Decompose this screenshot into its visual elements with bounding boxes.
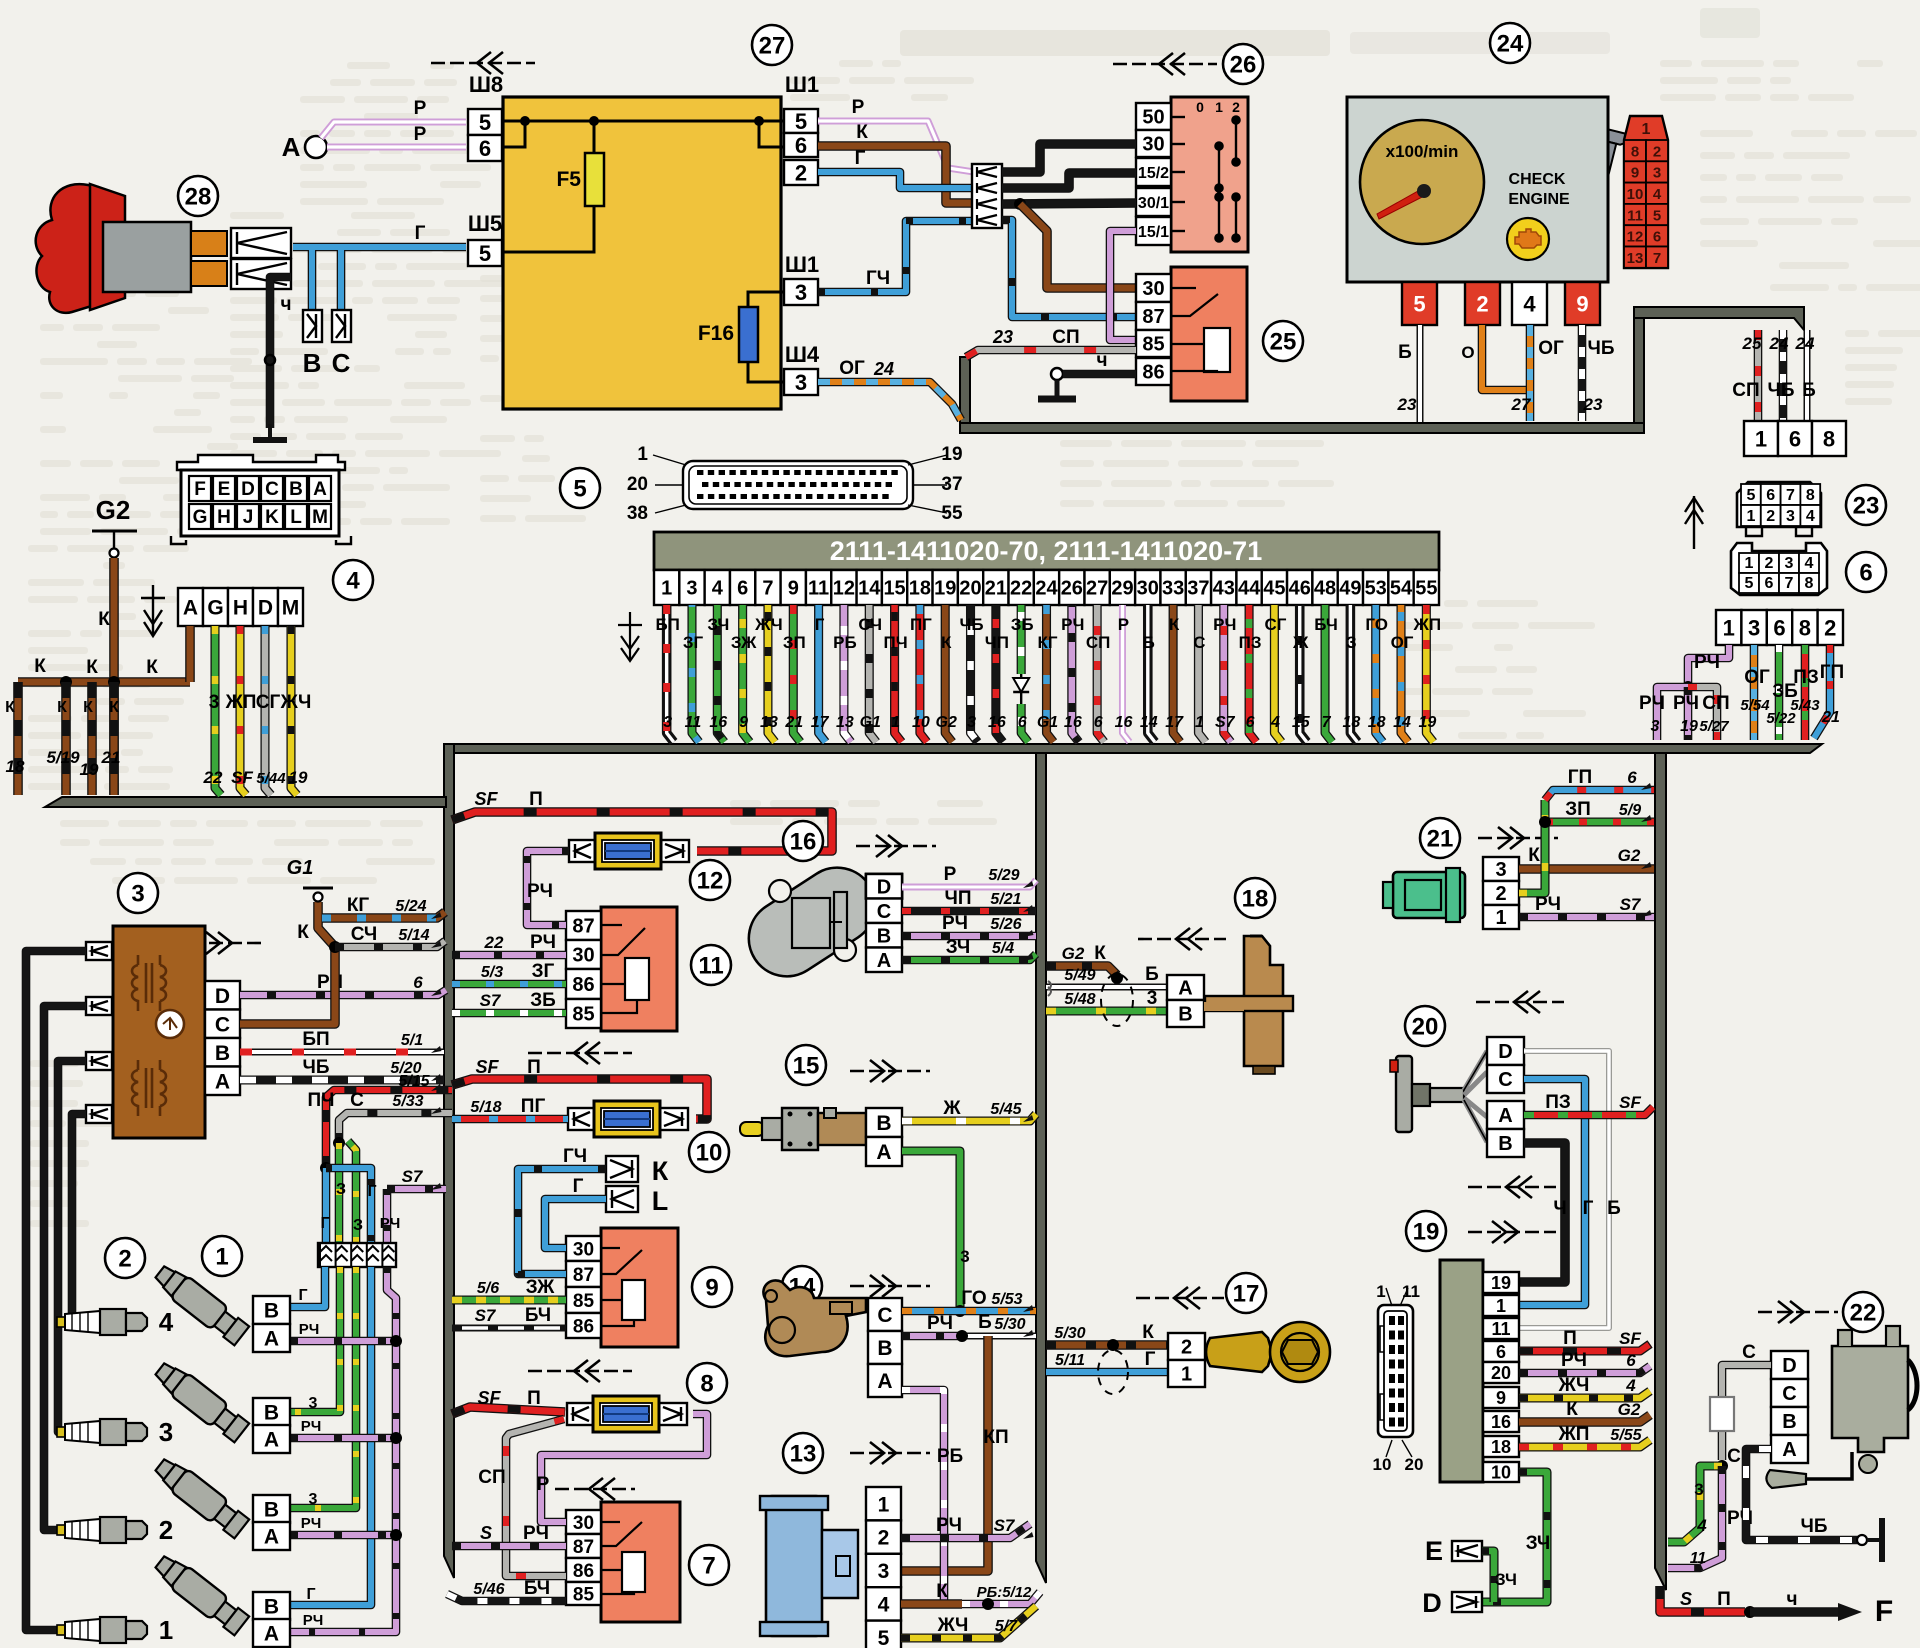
svg-text:13: 13 bbox=[836, 714, 854, 731]
svg-text:18: 18 bbox=[1342, 714, 1360, 731]
svg-text:29: 29 bbox=[1111, 578, 1133, 600]
svg-text:20: 20 bbox=[1491, 1363, 1511, 1383]
svg-text:П: П bbox=[527, 1057, 541, 1078]
svg-text:10: 10 bbox=[1491, 1462, 1511, 1482]
svg-text:ЗЧ: ЗЧ bbox=[946, 937, 971, 958]
svg-text:ПГ: ПГ bbox=[910, 615, 932, 634]
svg-text:5/14: 5/14 bbox=[398, 927, 429, 944]
svg-text:5/55: 5/55 bbox=[1610, 1427, 1642, 1444]
svg-text:12: 12 bbox=[833, 578, 855, 600]
svg-text:Б: Б bbox=[1398, 342, 1412, 363]
svg-text:5: 5 bbox=[1413, 291, 1425, 316]
svg-text:A: A bbox=[877, 1370, 892, 1393]
svg-text:3: 3 bbox=[795, 370, 807, 395]
svg-text:19: 19 bbox=[1418, 714, 1436, 731]
svg-text:B: B bbox=[215, 1042, 230, 1065]
svg-text:K: K bbox=[265, 507, 279, 528]
svg-text:24: 24 bbox=[1497, 30, 1524, 57]
svg-text:24: 24 bbox=[1769, 334, 1789, 353]
svg-text:3: 3 bbox=[131, 880, 144, 907]
svg-text:5/1: 5/1 bbox=[401, 1032, 423, 1049]
svg-text:К: К bbox=[1528, 845, 1540, 866]
svg-text:6: 6 bbox=[1627, 768, 1637, 787]
svg-text:19: 19 bbox=[941, 444, 962, 465]
svg-text:РЧ: РЧ bbox=[1213, 615, 1236, 634]
svg-text:3: 3 bbox=[1651, 718, 1660, 735]
svg-text:E: E bbox=[1425, 1536, 1443, 1566]
svg-text:5/29: 5/29 bbox=[988, 867, 1019, 884]
svg-text:ЗЧ: ЗЧ bbox=[707, 615, 729, 634]
svg-text:F5: F5 bbox=[556, 168, 581, 191]
svg-text:A: A bbox=[1782, 1439, 1796, 1461]
svg-text:23: 23 bbox=[992, 327, 1013, 347]
svg-text:8: 8 bbox=[1799, 615, 1811, 640]
svg-text:18: 18 bbox=[909, 578, 931, 600]
svg-text:1: 1 bbox=[637, 444, 648, 465]
svg-text:15/2: 15/2 bbox=[1138, 165, 1169, 182]
svg-text:C: C bbox=[877, 1304, 892, 1327]
svg-text:C: C bbox=[332, 348, 351, 378]
svg-text:22: 22 bbox=[203, 768, 223, 787]
svg-text:B: B bbox=[1782, 1411, 1796, 1433]
svg-text:20: 20 bbox=[627, 474, 648, 495]
svg-text:РЧ: РЧ bbox=[942, 913, 968, 934]
svg-text:3: 3 bbox=[209, 692, 220, 713]
svg-text:1: 1 bbox=[159, 1615, 173, 1645]
svg-text:7: 7 bbox=[1786, 487, 1795, 504]
svg-text:КГ: КГ bbox=[1037, 633, 1057, 652]
svg-text:РЧ: РЧ bbox=[303, 1612, 324, 1629]
svg-text:ЧБ: ЧБ bbox=[302, 1057, 329, 1078]
svg-text:44: 44 bbox=[1238, 578, 1261, 600]
svg-text:11: 11 bbox=[1627, 207, 1643, 224]
svg-text:ОГ: ОГ bbox=[1391, 633, 1414, 652]
svg-text:30: 30 bbox=[1142, 278, 1164, 300]
svg-text:4: 4 bbox=[1625, 1376, 1636, 1395]
svg-text:К: К bbox=[1169, 615, 1180, 634]
svg-text:G1: G1 bbox=[287, 857, 314, 879]
svg-text:6: 6 bbox=[1018, 714, 1027, 731]
svg-text:РЧ: РЧ bbox=[301, 1515, 322, 1532]
svg-text:8: 8 bbox=[1631, 143, 1639, 160]
svg-text:Г: Г bbox=[306, 1586, 315, 1603]
svg-text:СП: СП bbox=[478, 1467, 505, 1488]
svg-text:6: 6 bbox=[1094, 714, 1103, 731]
svg-text:ЗП: ЗП bbox=[1565, 799, 1591, 820]
svg-text:2: 2 bbox=[118, 1245, 131, 1272]
svg-text:5/15: 5/15 bbox=[398, 1073, 430, 1090]
svg-text:Г: Г bbox=[855, 148, 866, 169]
svg-text:Р: Р bbox=[852, 97, 865, 118]
svg-text:8: 8 bbox=[700, 1370, 713, 1397]
svg-text:G2: G2 bbox=[1618, 846, 1641, 865]
svg-text:К: К bbox=[86, 657, 98, 678]
svg-text:4: 4 bbox=[1805, 555, 1814, 572]
svg-text:7: 7 bbox=[1322, 714, 1332, 731]
svg-text:43: 43 bbox=[1213, 578, 1235, 600]
svg-text:Р: Р bbox=[944, 864, 957, 885]
svg-text:B: B bbox=[264, 1499, 279, 1522]
svg-text:СП: СП bbox=[1732, 380, 1759, 401]
svg-text:15/1: 15/1 bbox=[1138, 224, 1169, 241]
svg-text:ПЧ: ПЧ bbox=[883, 633, 907, 652]
svg-text:87: 87 bbox=[572, 916, 594, 938]
svg-text:G1: G1 bbox=[860, 714, 881, 731]
svg-text:К: К bbox=[652, 1156, 669, 1186]
svg-text:B: B bbox=[264, 1596, 279, 1619]
svg-text:ч: ч bbox=[280, 294, 291, 315]
svg-text:16: 16 bbox=[790, 828, 817, 855]
svg-text:ЧП: ЧП bbox=[944, 888, 971, 909]
svg-text:B: B bbox=[289, 479, 303, 500]
svg-text:87: 87 bbox=[573, 1265, 594, 1286]
svg-text:ГО: ГО bbox=[1365, 615, 1388, 634]
svg-text:КГ: КГ bbox=[347, 895, 370, 916]
svg-text:3: 3 bbox=[159, 1417, 173, 1447]
svg-text:ЗБ: ЗБ bbox=[530, 990, 556, 1011]
svg-text:ЖП: ЖП bbox=[1413, 615, 1442, 634]
svg-text:5/4: 5/4 bbox=[992, 940, 1014, 957]
svg-text:ЧБ: ЧБ bbox=[1587, 338, 1614, 359]
svg-text:ПЗ: ПЗ bbox=[1239, 633, 1262, 652]
svg-text:1: 1 bbox=[1495, 907, 1506, 929]
svg-text:16: 16 bbox=[988, 714, 1006, 731]
svg-text:A: A bbox=[264, 1328, 279, 1351]
svg-text:20: 20 bbox=[1405, 1455, 1424, 1474]
svg-text:БП: БП bbox=[302, 1029, 329, 1050]
svg-text:S: S bbox=[480, 1523, 492, 1543]
svg-text:9: 9 bbox=[1576, 291, 1588, 316]
svg-text:5/9: 5/9 bbox=[1619, 802, 1641, 819]
svg-text:Б: Б bbox=[1145, 964, 1159, 985]
svg-text:SF: SF bbox=[231, 768, 253, 787]
svg-text:S7: S7 bbox=[1215, 714, 1236, 731]
svg-text:СЧ: СЧ bbox=[351, 924, 378, 945]
svg-text:ОГ: ОГ bbox=[1744, 667, 1770, 688]
svg-text:5/26: 5/26 bbox=[990, 916, 1021, 933]
svg-text:2: 2 bbox=[1232, 99, 1240, 115]
svg-text:85: 85 bbox=[572, 1004, 594, 1026]
svg-text:4: 4 bbox=[1270, 714, 1280, 731]
svg-text:27: 27 bbox=[1511, 395, 1532, 414]
svg-text:21: 21 bbox=[985, 578, 1007, 600]
svg-text:ЗЖ: ЗЖ bbox=[731, 633, 757, 652]
svg-text:21: 21 bbox=[784, 714, 803, 731]
svg-text:ОГ: ОГ bbox=[1538, 338, 1564, 359]
svg-text:A: A bbox=[264, 1623, 279, 1646]
svg-text:5/6: 5/6 bbox=[477, 1280, 499, 1297]
svg-text:8: 8 bbox=[1806, 487, 1815, 504]
svg-text:ЗГ: ЗГ bbox=[532, 961, 555, 982]
svg-text:G2: G2 bbox=[936, 714, 957, 731]
svg-text:РЧ: РЧ bbox=[1561, 1350, 1587, 1371]
svg-text:ЖЧ: ЖЧ bbox=[1558, 1375, 1590, 1396]
svg-text:16: 16 bbox=[709, 714, 727, 731]
svg-text:7: 7 bbox=[1653, 250, 1661, 267]
svg-text:86: 86 bbox=[573, 1561, 594, 1582]
svg-text:18: 18 bbox=[1368, 714, 1386, 731]
svg-text:БЧ: БЧ bbox=[525, 1305, 551, 1326]
svg-text:14: 14 bbox=[1393, 714, 1411, 731]
svg-text:7: 7 bbox=[702, 1552, 715, 1579]
svg-text:РЧ: РЧ bbox=[927, 1313, 953, 1334]
svg-text:4: 4 bbox=[159, 1307, 174, 1337]
svg-text:К: К bbox=[1142, 1322, 1154, 1343]
svg-text:4: 4 bbox=[1806, 508, 1815, 525]
svg-text:20: 20 bbox=[959, 578, 981, 600]
svg-text:E: E bbox=[218, 479, 231, 500]
svg-text:B: B bbox=[877, 925, 891, 947]
svg-text:БП: БП bbox=[655, 615, 679, 634]
svg-text:6: 6 bbox=[795, 133, 807, 158]
svg-text:48: 48 bbox=[1314, 578, 1336, 600]
svg-text:87: 87 bbox=[1142, 306, 1164, 328]
svg-text:3: 3 bbox=[1495, 859, 1506, 881]
svg-text:49: 49 bbox=[1339, 578, 1361, 600]
svg-text:1: 1 bbox=[661, 578, 672, 600]
svg-text:СП: СП bbox=[1702, 693, 1729, 714]
svg-text:1: 1 bbox=[1215, 99, 1223, 115]
svg-text:3: 3 bbox=[1786, 508, 1795, 525]
svg-text:24: 24 bbox=[1795, 334, 1815, 353]
svg-text:ЖП: ЖП bbox=[225, 692, 257, 713]
svg-text:6: 6 bbox=[737, 578, 748, 600]
svg-text:A: A bbox=[264, 1429, 279, 1452]
svg-text:С: С bbox=[1742, 1342, 1756, 1363]
svg-text:Г: Г bbox=[320, 1215, 329, 1232]
svg-text:17: 17 bbox=[811, 714, 830, 731]
svg-text:23: 23 bbox=[1583, 395, 1603, 414]
svg-text:Г: Г bbox=[415, 223, 426, 244]
svg-text:D: D bbox=[1498, 1041, 1512, 1063]
svg-text:B: B bbox=[1498, 1133, 1512, 1155]
svg-text:14: 14 bbox=[1140, 714, 1158, 731]
svg-text:2: 2 bbox=[1824, 615, 1836, 640]
svg-text:SF: SF bbox=[474, 789, 498, 809]
svg-text:3: 3 bbox=[1653, 165, 1661, 182]
svg-text:S7: S7 bbox=[480, 991, 502, 1010]
svg-text:З: З bbox=[1346, 633, 1357, 652]
svg-text:G2: G2 bbox=[1618, 1400, 1641, 1419]
svg-text:5/3: 5/3 bbox=[481, 964, 503, 981]
svg-text:F: F bbox=[1875, 1595, 1893, 1628]
svg-text:D: D bbox=[258, 597, 273, 620]
svg-text:П: П bbox=[1563, 1328, 1577, 1349]
svg-text:Р: Р bbox=[414, 98, 427, 119]
svg-text:21: 21 bbox=[101, 748, 121, 767]
svg-text:РЧ: РЧ bbox=[936, 1515, 962, 1536]
svg-text:CHECK: CHECK bbox=[1509, 171, 1566, 188]
svg-text:21: 21 bbox=[1821, 709, 1840, 726]
svg-text:C: C bbox=[877, 901, 891, 923]
svg-text:S: S bbox=[1680, 1589, 1692, 1609]
svg-text:6: 6 bbox=[1859, 559, 1872, 586]
svg-text:85: 85 bbox=[573, 1291, 595, 1312]
svg-text:5/30: 5/30 bbox=[1054, 1325, 1085, 1342]
svg-text:2: 2 bbox=[1766, 508, 1775, 525]
svg-text:Ч: Ч bbox=[1553, 1198, 1566, 1219]
svg-text:4: 4 bbox=[1523, 291, 1536, 316]
svg-text:10: 10 bbox=[1373, 1455, 1392, 1474]
svg-text:1: 1 bbox=[1181, 1364, 1192, 1386]
svg-text:РЧ: РЧ bbox=[527, 881, 553, 902]
svg-text:ПГ: ПГ bbox=[521, 1096, 546, 1117]
svg-text:G: G bbox=[207, 597, 223, 620]
svg-text:ГО: ГО bbox=[961, 1288, 986, 1309]
svg-text:19: 19 bbox=[80, 760, 99, 779]
svg-text:5/11: 5/11 bbox=[1055, 1352, 1085, 1369]
svg-text:ЗБ: ЗБ bbox=[1011, 615, 1034, 634]
svg-text:РБ: РБ bbox=[937, 1446, 963, 1467]
svg-text:S7: S7 bbox=[994, 1516, 1016, 1535]
svg-text:7: 7 bbox=[1785, 575, 1794, 592]
svg-text:ЗЖ: ЗЖ bbox=[526, 1277, 555, 1298]
svg-text:5/44: 5/44 bbox=[256, 770, 286, 787]
svg-text:БЧ: БЧ bbox=[1314, 615, 1338, 634]
svg-text:18: 18 bbox=[1491, 1437, 1511, 1457]
svg-text:3: 3 bbox=[960, 1247, 969, 1266]
svg-text:РБ:5/12: РБ:5/12 bbox=[977, 1584, 1032, 1601]
svg-text:A: A bbox=[876, 1141, 891, 1164]
svg-text:33: 33 bbox=[1162, 578, 1184, 600]
svg-text:Б: Б bbox=[1143, 633, 1155, 652]
svg-text:ПЗ: ПЗ bbox=[1793, 667, 1819, 688]
svg-text:G2: G2 bbox=[1062, 944, 1085, 963]
svg-text:ЧБ: ЧБ bbox=[1767, 380, 1794, 401]
svg-text:SF: SF bbox=[477, 1388, 501, 1408]
svg-text:18: 18 bbox=[1242, 885, 1269, 912]
svg-text:5: 5 bbox=[878, 1627, 890, 1648]
svg-text:РЧ: РЧ bbox=[1535, 894, 1561, 915]
svg-text:17: 17 bbox=[1233, 1280, 1260, 1307]
svg-text:1: 1 bbox=[1746, 508, 1755, 525]
svg-text:87: 87 bbox=[573, 1537, 594, 1558]
svg-text:7: 7 bbox=[762, 578, 773, 600]
svg-text:6: 6 bbox=[1765, 575, 1774, 592]
svg-text:РЧ: РЧ bbox=[1673, 693, 1699, 714]
svg-text:9: 9 bbox=[705, 1274, 718, 1301]
svg-text:A: A bbox=[183, 597, 198, 620]
svg-text:9: 9 bbox=[788, 578, 799, 600]
svg-text:5/7: 5/7 bbox=[995, 1618, 1018, 1635]
svg-text:M: M bbox=[282, 597, 300, 620]
svg-text:A: A bbox=[1178, 978, 1192, 1000]
svg-text:13: 13 bbox=[1627, 250, 1644, 267]
svg-text:Г: Г bbox=[298, 1287, 307, 1304]
svg-text:B: B bbox=[264, 1300, 279, 1323]
svg-text:46: 46 bbox=[1289, 578, 1311, 600]
svg-text:ПЗ: ПЗ bbox=[1545, 1092, 1571, 1113]
svg-text:3: 3 bbox=[1147, 988, 1158, 1009]
svg-text:28: 28 bbox=[185, 183, 212, 210]
svg-text:4: 4 bbox=[346, 567, 360, 594]
svg-text:11: 11 bbox=[698, 952, 723, 979]
svg-text:4: 4 bbox=[712, 578, 724, 600]
svg-text:A: A bbox=[313, 479, 327, 500]
svg-text:22: 22 bbox=[1010, 578, 1032, 600]
svg-text:5: 5 bbox=[573, 475, 586, 502]
svg-text:30: 30 bbox=[572, 945, 594, 967]
svg-text:РЧ: РЧ bbox=[380, 1215, 401, 1232]
svg-text:Г: Г bbox=[367, 1183, 376, 1200]
svg-text:20: 20 bbox=[1412, 1013, 1439, 1040]
svg-text:B: B bbox=[303, 348, 322, 378]
svg-text:К: К bbox=[57, 699, 67, 716]
svg-text:C: C bbox=[1498, 1069, 1512, 1091]
svg-text:19: 19 bbox=[1680, 718, 1698, 735]
svg-text:2: 2 bbox=[1181, 1337, 1192, 1359]
svg-text:3: 3 bbox=[1694, 1480, 1703, 1499]
svg-text:СГ: СГ bbox=[256, 692, 281, 713]
svg-text:15: 15 bbox=[1292, 714, 1311, 731]
svg-text:13: 13 bbox=[760, 714, 778, 731]
svg-text:С: С bbox=[1727, 1446, 1741, 1467]
svg-text:3: 3 bbox=[795, 280, 807, 305]
svg-text:2111-1411020-70, 2111-1411020-: 2111-1411020-70, 2111-1411020-71 bbox=[830, 536, 1262, 566]
svg-text:5: 5 bbox=[1745, 575, 1754, 592]
svg-text:БЧ: БЧ bbox=[524, 1578, 550, 1599]
svg-text:Р: Р bbox=[537, 1474, 550, 1495]
svg-text:3: 3 bbox=[1748, 615, 1760, 640]
svg-text:F16: F16 bbox=[698, 322, 734, 345]
svg-text:Р: Р bbox=[414, 124, 427, 145]
svg-text:К: К bbox=[146, 657, 158, 678]
svg-text:5/45: 5/45 bbox=[990, 1101, 1022, 1118]
svg-text:ГП: ГП bbox=[1568, 767, 1592, 788]
svg-text:ЗЧ: ЗЧ bbox=[1526, 1533, 1551, 1554]
svg-text:ЗГ: ЗГ bbox=[683, 633, 704, 652]
svg-text:C: C bbox=[265, 479, 279, 500]
svg-text:10: 10 bbox=[1627, 186, 1644, 203]
svg-text:К: К bbox=[34, 656, 46, 677]
svg-text:5/46: 5/46 bbox=[473, 1581, 504, 1598]
svg-text:11: 11 bbox=[808, 578, 829, 600]
svg-text:5/30: 5/30 bbox=[994, 1316, 1025, 1333]
svg-text:Ж: Ж bbox=[1292, 633, 1309, 652]
svg-text:26: 26 bbox=[1230, 51, 1257, 78]
svg-text:З: З bbox=[336, 1181, 346, 1198]
svg-text:x100/min: x100/min bbox=[1386, 142, 1459, 161]
svg-text:К: К bbox=[83, 699, 93, 716]
svg-text:85: 85 bbox=[1142, 334, 1164, 356]
svg-text:6: 6 bbox=[1653, 229, 1661, 246]
svg-text:СГ: СГ bbox=[1264, 615, 1286, 634]
svg-text:37: 37 bbox=[1187, 578, 1209, 600]
svg-text:B: B bbox=[876, 1112, 891, 1135]
svg-text:ЧБ: ЧБ bbox=[1800, 1516, 1827, 1537]
svg-text:П: П bbox=[529, 789, 543, 810]
svg-text:D: D bbox=[1422, 1588, 1442, 1618]
svg-text:6: 6 bbox=[413, 973, 423, 992]
svg-text:3: 3 bbox=[686, 578, 697, 600]
svg-text:B: B bbox=[877, 1337, 892, 1360]
svg-text:25: 25 bbox=[1742, 334, 1762, 353]
svg-text:Ш5: Ш5 bbox=[468, 211, 502, 236]
svg-text:A: A bbox=[1498, 1105, 1512, 1127]
svg-text:0: 0 bbox=[1196, 99, 1204, 115]
svg-text:Р: Р bbox=[1118, 615, 1129, 634]
svg-text:SF: SF bbox=[475, 1057, 499, 1077]
svg-text:С: С bbox=[350, 1090, 364, 1111]
svg-text:3: 3 bbox=[1785, 555, 1794, 572]
svg-text:3: 3 bbox=[309, 1491, 318, 1508]
svg-text:5/19: 5/19 bbox=[46, 748, 80, 767]
svg-text:19: 19 bbox=[289, 768, 308, 787]
svg-text:86: 86 bbox=[1142, 362, 1164, 384]
svg-text:П: П bbox=[527, 1388, 541, 1409]
svg-text:ГЧ: ГЧ bbox=[563, 1146, 587, 1167]
svg-text:Г: Г bbox=[1145, 1349, 1156, 1370]
